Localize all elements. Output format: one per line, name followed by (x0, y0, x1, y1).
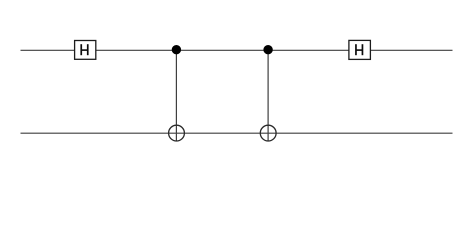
wire: vertical connector CNOT 2 (control to target) (267, 50, 269, 141)
gate H2 (Hadamard, top wire right) (349, 40, 371, 59)
target circle CNOT 1 (XOR on bottom wire) (169, 125, 185, 141)
letter H of gate H1 (80, 44, 88, 55)
wire: vertical connector CNOT 1 (control to target) (175, 50, 177, 141)
gate H1 (Hadamard, top wire left) (75, 41, 96, 60)
target circle CNOT 2 (XOR on bottom wire) (260, 125, 276, 141)
control dot CNOT 1 (172, 45, 181, 54)
wire: top qubit line q0 (21, 49, 453, 51)
wire: bottom qubit line q1 (21, 132, 453, 134)
letter H of gate H2 (355, 44, 363, 55)
control dot CNOT 2 (263, 45, 272, 54)
